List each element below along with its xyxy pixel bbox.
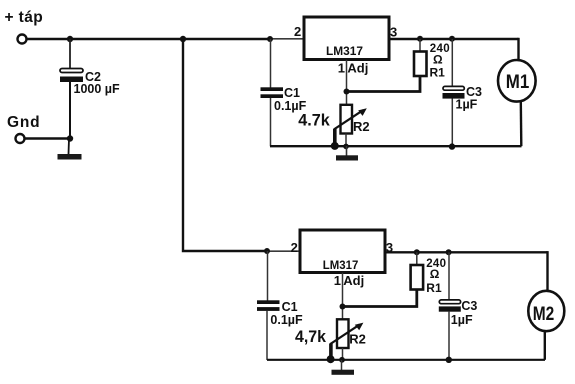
wire C1 lead bottom bottom-circuit <box>266 311 268 360</box>
potentiometer R2 top <box>334 105 367 134</box>
wire ground stem top circuit <box>346 146 348 156</box>
svg-text:R2: R2 <box>353 119 370 134</box>
wire vertical rail to lower circuit <box>183 39 268 251</box>
svg-text:M2: M2 <box>533 303 555 325</box>
wire pin1 Adj lead <box>346 60 348 105</box>
ground top circuit <box>336 155 358 160</box>
node junction C1 top <box>267 36 273 42</box>
wire top rail <box>27 38 271 40</box>
svg-text:C1: C1 <box>282 300 298 314</box>
node junction C3 top <box>449 36 455 42</box>
wire C2 lead bottom <box>69 82 71 139</box>
wire C1 lead bottom <box>270 98 272 146</box>
svg-text:4,7k: 4,7k <box>295 327 327 346</box>
svg-text:Adj: Adj <box>343 273 364 288</box>
wire pin3 to rail <box>389 38 519 40</box>
svg-text:Adj: Adj <box>347 60 368 75</box>
node junction C2 branch <box>67 36 73 42</box>
svg-text:4.7k: 4.7k <box>298 111 330 130</box>
svg-text:1µF: 1µF <box>451 313 473 327</box>
wire C1 lead top <box>270 39 272 88</box>
wire pin2 lead bottom <box>268 250 300 252</box>
wire R2 wiper down bottom <box>329 344 333 359</box>
capacitor C3 top <box>443 86 465 98</box>
wire M1 bottom lead <box>520 101 523 146</box>
node R2 bottom junction bottom-circuit <box>339 357 345 363</box>
capacitor C1 bottom circuit <box>257 300 280 311</box>
wire M1 top lead <box>517 38 519 61</box>
wire C2 lead top <box>69 39 71 69</box>
wire R2 bottom lead bottom-circuit <box>342 348 344 360</box>
wire C3 lead top bottom-circuit <box>448 252 450 300</box>
motor M1 <box>498 60 536 102</box>
wire pin3 rail bottom <box>385 251 548 253</box>
capacitor C3 bottom circuit <box>439 300 461 312</box>
potentiometer R2 bottom <box>330 319 363 348</box>
node junction R1 top <box>417 36 423 42</box>
wire R1 lead top bottom-circuit <box>416 252 418 265</box>
node wiper junction <box>331 142 339 150</box>
node junction C3 bottom-circuit <box>446 249 452 255</box>
capacitor C1 top circuit <box>261 87 284 98</box>
svg-text:LM317: LM317 <box>323 258 359 272</box>
svg-text:2: 2 <box>291 240 298 255</box>
svg-text:M1: M1 <box>506 71 530 93</box>
label 240 ohm R1 bottom <box>426 258 446 295</box>
svg-text:0.1µF: 0.1µF <box>270 313 303 327</box>
wire pin1 Adj lead bottom <box>342 273 344 320</box>
node Adj junction bottom <box>340 304 346 310</box>
op-amp U2 regulator LM317 bottom <box>300 230 385 273</box>
node junction vertical rail <box>180 36 186 42</box>
svg-text:1: 1 <box>334 273 341 288</box>
pin 1 Adj bottom <box>334 273 364 288</box>
op-amp U1 regulator LM317 top <box>304 17 389 60</box>
wire pin2 lead top <box>271 38 304 40</box>
node junction Gnd <box>67 135 73 141</box>
svg-text:LM317: LM317 <box>326 44 363 58</box>
node R2 bottom junction <box>343 144 349 150</box>
svg-text:2: 2 <box>294 24 301 39</box>
resistor R1 bottom circuit <box>411 265 424 290</box>
ground bottom circuit <box>332 370 355 375</box>
terminal + táp <box>18 35 27 44</box>
wire bottom rail top circuit <box>270 145 522 147</box>
pin 1 Adj top <box>338 60 369 75</box>
wire C3 lead bottom bottom-circuit <box>448 312 450 360</box>
svg-text:1000 µF: 1000 µF <box>74 82 120 96</box>
node junction C1 bottom circuit <box>264 248 270 254</box>
wire R1 bottom to Adj node bottom <box>343 290 417 307</box>
terminal Gnd <box>16 134 25 143</box>
svg-text:R2: R2 <box>349 332 366 347</box>
label 240 ohm R1 top <box>430 43 450 80</box>
resistor R1 top <box>414 52 427 77</box>
node junction C3 bottom <box>449 143 455 149</box>
wire ground stem bottom circuit <box>341 360 343 371</box>
node junction R1 bottom-circuit <box>414 249 420 255</box>
wire R2 wiper down <box>333 129 337 145</box>
wire ground stem <box>68 139 71 155</box>
wire R2 bottom lead <box>345 134 347 148</box>
motor M2 <box>528 291 564 331</box>
ground input <box>58 154 82 160</box>
node junction C3 rail bottom-circuit <box>446 357 452 363</box>
svg-text:Gnd: Gnd <box>7 114 40 131</box>
svg-text:C1: C1 <box>284 86 300 100</box>
wire Gnd <box>25 137 70 139</box>
wire bottom rail bottom circuit <box>267 359 545 361</box>
svg-text:R1: R1 <box>430 65 446 79</box>
svg-text:C3: C3 <box>461 299 477 313</box>
svg-text:R1: R1 <box>426 281 442 295</box>
capacitor C2 <box>60 69 83 83</box>
wire M2 bottom lead <box>544 331 546 360</box>
svg-text:Ω: Ω <box>433 52 443 66</box>
svg-text:3: 3 <box>390 24 397 39</box>
svg-text:Ω: Ω <box>430 267 440 281</box>
wire C3 lead top <box>451 39 453 87</box>
node wiper junction bottom <box>327 355 335 363</box>
wire M2 top lead <box>546 251 548 291</box>
wire R1 bottom to Adj node <box>347 76 420 92</box>
wire C1 lead top bottom-circuit <box>267 251 269 301</box>
wire R1 lead top <box>419 39 421 52</box>
wire C3 lead bottom <box>451 99 453 147</box>
svg-text:+ táp: + táp <box>5 9 44 26</box>
svg-text:1µF: 1µF <box>456 98 478 112</box>
svg-text:1: 1 <box>338 60 345 75</box>
node Adj junction top <box>344 89 350 95</box>
